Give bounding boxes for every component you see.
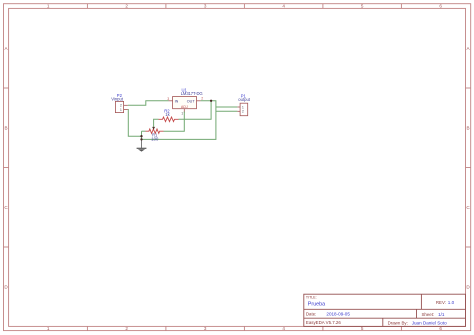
resistor R2 (159, 117, 179, 122)
wire P2 pin1 to ground node (128, 110, 142, 137)
svg-text:1: 1 (120, 108, 122, 112)
svg-text:1: 1 (47, 4, 50, 9)
svg-text:Date:: Date: (306, 311, 317, 316)
connector P1 (237, 103, 247, 116)
junction dot OUT node (210, 100, 212, 102)
wire branch to P1 pin2 (216, 110, 238, 112)
title block REV cell divider (420, 294, 422, 309)
svg-text:LM317T-DG: LM317T-DG (181, 91, 203, 96)
svg-text:1: 1 (181, 112, 183, 116)
frame column numbers bottom (47, 326, 443, 331)
wire ground vertical (141, 131, 143, 140)
ground (137, 140, 147, 152)
svg-text:3: 3 (167, 97, 169, 101)
title block outline (304, 294, 466, 326)
connector P2 (115, 101, 128, 112)
junction dot bottomrow-gnd (140, 138, 142, 140)
frame column ticks top (87, 4, 401, 9)
title block row divider 2 (304, 317, 466, 319)
title block Sheet cell divider (416, 309, 418, 318)
svg-text:TITLE:: TITLE: (306, 296, 317, 300)
svg-text:EasyEDA V5.7.26: EasyEDA V5.7.26 (306, 320, 341, 325)
svg-text:1.0: 1.0 (448, 300, 455, 305)
potentiometer R1 (146, 127, 164, 133)
svg-text:2: 2 (125, 326, 128, 331)
svg-text:2: 2 (242, 110, 244, 114)
svg-text:3: 3 (204, 4, 207, 9)
svg-text:1/1: 1/1 (438, 312, 445, 317)
svg-text:5: 5 (361, 4, 364, 9)
title block DrawnBy cell divider (382, 318, 384, 326)
wire P2 pin2 to U1 IN (128, 101, 169, 106)
R1 wiper arrow (152, 127, 155, 130)
frame row ticks right (466, 88, 471, 247)
svg-text:2: 2 (125, 4, 128, 9)
svg-text:B: B (5, 125, 8, 130)
frame row letters right (466, 46, 470, 290)
wire R2 right up to OUT node (179, 101, 212, 120)
wire R1 row / ADJ connection (142, 130, 146, 132)
wire U1 OUT to node and P1 feed (142, 101, 216, 140)
svg-text:5: 5 (361, 326, 364, 331)
title block row divider 1 (304, 308, 466, 310)
svg-text:6: 6 (439, 4, 442, 9)
frame column ticks bottom (87, 326, 401, 330)
wire R2 left to R1 wiper (154, 119, 159, 127)
svg-text:REV:: REV: (436, 300, 446, 305)
svg-text:Drawn By:: Drawn By: (388, 320, 408, 325)
svg-text:2018-09-05: 2018-09-05 (326, 312, 350, 317)
junction dot P2-gnd (140, 135, 142, 137)
svg-text:6: 6 (439, 326, 442, 331)
svg-text:Sheet:: Sheet: (422, 312, 435, 317)
svg-text:OUT: OUT (187, 99, 196, 103)
svg-text:100: 100 (151, 136, 159, 141)
op-amp U1 LM317T-DG regulator body (169, 97, 201, 113)
svg-text:4: 4 (282, 4, 285, 9)
svg-text:4: 4 (282, 326, 285, 331)
svg-text:B: B (467, 125, 470, 130)
svg-text:Vinput: Vinput (111, 97, 124, 102)
svg-text:output: output (238, 97, 250, 102)
frame row letters left (4, 46, 8, 290)
svg-text:Juan Daniel Soto: Juan Daniel Soto (412, 320, 447, 325)
svg-text:Prueba: Prueba (308, 302, 325, 308)
frame column numbers top (47, 4, 443, 9)
wire branch to P1 pin1 (216, 106, 238, 108)
svg-text:IN: IN (175, 99, 179, 103)
frame row ticks left (4, 88, 9, 247)
svg-text:1: 1 (47, 326, 50, 331)
svg-text:2: 2 (201, 97, 203, 101)
svg-text:ADJ: ADJ (181, 105, 188, 109)
svg-text:3: 3 (204, 326, 207, 331)
